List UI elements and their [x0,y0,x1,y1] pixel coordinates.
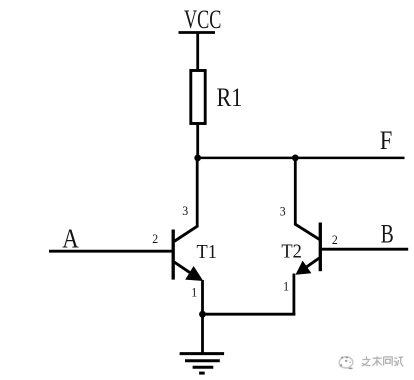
resistor R1 [191,71,205,124]
resistor R1 value label [217,84,243,112]
transistor T2 pin 3 label [280,204,286,218]
wire T1 collector vertical [196,158,199,227]
junction node emitters [199,311,206,318]
transistor T2 pin 1 label [283,279,289,293]
node F label [380,127,393,156]
wire T2 emitter vertical [292,274,295,316]
svg-text:T2: T2 [281,241,301,263]
transistor T2 collector diagonal [295,224,321,240]
wire T1 emitter vertical [201,280,204,316]
wire emitter bus horizontal [203,313,296,316]
transistor T1 base bar [172,230,175,280]
junction node R1/T1 collector [194,155,201,162]
transistor T1 collector diagonal [173,226,198,242]
svg-text:1: 1 [191,285,197,299]
watermark logo [339,357,353,368]
svg-text:2: 2 [152,232,158,246]
transistor T1 emitter arrow [185,266,203,281]
transistor T1 pin 2 label [152,232,158,246]
wire VCC bar to R1 top [196,33,199,72]
wire R1 bottom to node F [196,123,199,158]
power VCC label [184,5,221,34]
transistor T2 pin 2 label [332,233,338,247]
watermark text [362,356,404,366]
transistor T1 pin 3 label [182,204,188,218]
svg-text:F: F [380,127,393,156]
transistor T2 base bar [319,223,322,272]
transistor T1 emitter diagonal [174,262,197,278]
svg-text:1: 1 [283,279,289,293]
wire output net F horizontal [196,157,404,160]
svg-text:A: A [62,225,78,254]
svg-text:2: 2 [332,233,338,247]
svg-text:3: 3 [280,204,286,218]
wire emitter node to ground [201,314,204,353]
input node A label [62,225,78,254]
power VCC rail bar [179,31,216,34]
transistor T1 reference label [197,241,217,263]
ground [180,354,225,374]
svg-text:B: B [381,220,394,248]
transistor T1 pin 1 label [191,285,197,299]
wire T2 collector vertical [294,158,297,225]
wire input A to T1 base [49,250,173,253]
input node B label [381,220,394,248]
transistor T2 emitter diagonal [298,258,320,273]
transistor T2 emitter arrow [296,261,312,275]
svg-text:VCC: VCC [184,5,221,34]
svg-text:T1: T1 [197,241,217,263]
svg-text:3: 3 [182,204,188,218]
transistor T2 reference label [281,241,301,263]
svg-text:R1: R1 [217,84,243,112]
junction node T2 collector [292,155,299,162]
wire T2 base to input B [320,248,408,251]
